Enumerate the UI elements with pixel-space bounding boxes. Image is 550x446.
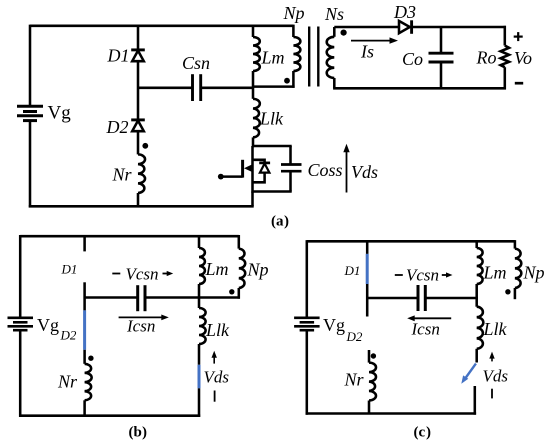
wire: (a) D1-D2 segment [137, 61, 140, 120]
wire: (c) Nr to bottom [368, 401, 371, 414]
svg-text:Vcsn: Vcsn [406, 266, 439, 285]
capacitor Co lead bottom [440, 62, 443, 88]
polarity dot Nr [142, 143, 148, 149]
winding Np (c) [515, 249, 521, 288]
svg-text:Vg: Vg [37, 315, 59, 335]
wire: (a) Np branch top lead [292, 25, 295, 37]
svg-text:): ) [142, 425, 147, 441]
svg-text:Icsn: Icsn [411, 320, 440, 339]
svg-text:Lm: Lm [205, 259, 229, 279]
polarity dot Np (a) [284, 78, 290, 84]
svg-text:Vds: Vds [204, 368, 230, 387]
wire: (c) switch bottom stub [474, 386, 477, 415]
wire: (a) source rail to Coss [253, 190, 292, 193]
wire: (a) left rail upper [29, 25, 32, 107]
resistor Ro [501, 46, 509, 68]
capacitor Co lead top [440, 27, 443, 53]
wire: (a) left rail lower [29, 121, 32, 208]
wire: (b) D2 black top [83, 298, 86, 311]
arrow Vcsn (b) [163, 273, 169, 275]
label minus Vcsn (b) [112, 273, 120, 275]
diode D1 [131, 48, 145, 51]
wire: (c) Csn wire left [367, 297, 418, 300]
wire: (b) Csn wire left [85, 296, 138, 299]
svg-text:Coss: Coss [308, 160, 343, 180]
switch blade blue arrow (c) [465, 364, 476, 379]
wire: (b) Lm bottom lead [198, 284, 201, 298]
transistor Q1 gate bar [241, 160, 244, 178]
winding Ns [327, 37, 335, 78]
wire: gate lead [221, 175, 243, 178]
wire: (a) Nr to bottom [137, 193, 140, 206]
wire: (a) bottom rail [29, 205, 254, 208]
svg-text:Llk: Llk [483, 319, 508, 339]
label minus (a) [515, 82, 523, 85]
wire: (b) Nr to bottom [83, 400, 86, 415]
svg-text:Vds: Vds [351, 162, 378, 182]
svg-text:a: a [276, 214, 284, 230]
svg-text:Icsn: Icsn [126, 317, 155, 336]
capacitor Coss lead top [289, 146, 292, 165]
capacitor Csn (c) [417, 285, 420, 311]
wire: (b) left rail upper [19, 235, 22, 318]
svg-text:Nr: Nr [57, 372, 78, 392]
wire: (a) Lm bottom lead [252, 71, 255, 88]
wire: (a) right rail bottom [504, 67, 507, 89]
svg-text:Nr: Nr [112, 165, 133, 185]
diode D1 blue segment (c) [366, 254, 369, 284]
svg-text:Ro: Ro [476, 48, 497, 68]
wire: (c) Llk top lead [475, 298, 478, 307]
svg-text:): ) [426, 425, 431, 441]
current arrow Icsn (b) [119, 316, 162, 318]
body diode of Q1 [259, 162, 270, 165]
polarity dot Np (b) [229, 289, 234, 294]
svg-text:Lm: Lm [483, 263, 507, 283]
voltage arrow Vds (c) [491, 357, 493, 361]
battery Vg (c) [294, 316, 320, 319]
wire: (b) top rail [20, 235, 239, 238]
svg-text:): ) [284, 214, 289, 230]
transistor Q1 channel [251, 146, 254, 193]
wire: (c) Llk to switch [475, 349, 478, 363]
wire: (b) Llk to blue [198, 344, 201, 365]
svg-text:Np: Np [283, 3, 305, 23]
inductor Lm (a) [253, 37, 260, 71]
svg-text:D1: D1 [344, 263, 361, 278]
inductor Nr (a) [138, 154, 145, 193]
svg-text:D2: D2 [346, 329, 363, 344]
wire: (a) Csn left lead [138, 87, 193, 90]
svg-text:Nr: Nr [344, 370, 365, 390]
svg-text:Vcsn: Vcsn [126, 265, 159, 284]
svg-text:Is: Is [360, 42, 374, 62]
dash below Vds (b) [214, 391, 216, 402]
svg-text:Np: Np [523, 263, 545, 283]
svg-text:Lm: Lm [261, 48, 285, 68]
voltage arrow Vds (b) [213, 356, 215, 364]
polarity dot Nr (c) [371, 353, 376, 358]
wire: (b) D1 stub upper [83, 235, 86, 251]
wire: (c) D2 stub [366, 298, 369, 317]
svg-text:Vg: Vg [48, 103, 72, 124]
wire: (c) Nr top stub [368, 350, 371, 363]
wire: (c) bottom rail [306, 412, 477, 415]
label minus Vcsn (c) [395, 274, 403, 276]
winding Np (b) [239, 249, 245, 288]
transistor Q1 arrow [244, 164, 252, 172]
capacitor Co [429, 52, 454, 55]
winding Np (a) [293, 37, 300, 71]
wire: (b) Lm top lead [198, 236, 201, 248]
dash below Vds (c) [491, 389, 493, 399]
diode D2 blue segment (b) [83, 310, 86, 349]
switch voltage blue segment (b) [198, 365, 201, 389]
wire: (c) Lm bottom lead [475, 284, 478, 298]
inductor Nr (c) [369, 363, 376, 401]
wire: (c) Np top lead [514, 240, 517, 249]
wire: (c) top rail [307, 240, 515, 243]
svg-text:Ns: Ns [324, 4, 344, 24]
voltage arrow Vds (a) [346, 150, 348, 193]
wire: (a) Llk top lead [252, 87, 255, 99]
svg-text:Llk: Llk [259, 109, 284, 129]
body diode bottom lead [253, 173, 265, 183]
wire: (b) Llk top lead [198, 298, 201, 309]
wire: (b) Np bottom lead [238, 288, 241, 299]
wire: (a) Ns bottom lead [333, 78, 336, 88]
wire: (a) secondary top left [334, 26, 399, 29]
arrow Vcsn (c) [442, 274, 448, 276]
wire: (c) Np bottom lead [514, 288, 517, 299]
transformer core bars [308, 27, 310, 87]
battery Vg (b) [8, 316, 34, 319]
node: D1/D2/Csn junction [137, 87, 139, 89]
wire: (a) D2 to Nr [137, 131, 140, 154]
inductor Lm (c) [477, 248, 483, 284]
svg-text:c: c [419, 425, 426, 441]
wire: (b) Np top lead [238, 235, 241, 249]
wire: (a) Csn right lead [201, 87, 254, 90]
wire: (a) source to bottom [251, 192, 254, 207]
svg-text:Llk: Llk [205, 320, 230, 340]
wire: (a) Np bottom lead [292, 71, 295, 88]
capacitor Csn (b) [136, 285, 139, 311]
svg-text:Vo: Vo [514, 48, 532, 68]
gate terminal dot [218, 174, 224, 180]
inductor Llk (c) [477, 307, 484, 349]
svg-text:D1: D1 [61, 262, 78, 277]
wire: (c) Csn wire right [425, 297, 478, 300]
svg-text:Co: Co [402, 49, 423, 69]
svg-text:Np: Np [247, 260, 269, 280]
wire: (b) D2 to Nr coil [83, 350, 86, 364]
wire: (b) Csn wire right [145, 296, 240, 299]
inductor Lm (b) [199, 248, 205, 284]
inductor Nr (b) [85, 364, 92, 401]
wire: (c) left rail lower [306, 330, 309, 415]
svg-text:Vg: Vg [323, 315, 345, 335]
wire: (b) blue to bottom [198, 388, 201, 417]
capacitor Csn [191, 74, 194, 101]
svg-text:Vds: Vds [483, 367, 509, 386]
wire: (b) D1 lower segment [83, 282, 86, 297]
wire: (b) bottom rail [19, 414, 200, 417]
wire: (a) right rail top [504, 26, 507, 46]
wire: (a) drain rail to Coss [253, 145, 292, 148]
capacitor Coss [281, 163, 302, 166]
current arrow Icsn (c) [415, 317, 452, 319]
wire: (c) D1 black top [366, 240, 369, 254]
wire: (c) D1 black bottom [366, 284, 369, 298]
wire: (a) D1 branch top [137, 25, 140, 50]
battery Vg (a) [17, 105, 43, 108]
wire: (a) Ns top lead [333, 27, 336, 37]
polarity dot Np (c) [505, 289, 510, 294]
svg-text:D2: D2 [106, 117, 129, 137]
capacitor Coss lead bottom [289, 171, 292, 191]
svg-text:b: b [134, 425, 142, 441]
svg-text:D3: D3 [393, 2, 416, 22]
wire: (a) secondary bottom rail [333, 87, 506, 90]
inductor Llk (b) [199, 308, 206, 344]
wire: (c) Lm top lead [475, 241, 478, 248]
wire: (a) Llk to drain [252, 137, 255, 147]
label plus (a) [514, 35, 523, 37]
polarity dot Nr (b) [88, 356, 93, 361]
transistor Q1 drain step [253, 160, 265, 163]
svg-text:D1: D1 [107, 46, 130, 66]
inductor Llk (a) [253, 99, 260, 138]
current arrow Is [351, 40, 391, 42]
polarity dot Ns [341, 29, 347, 35]
diode D3 [399, 21, 410, 33]
diode D2 [131, 118, 145, 121]
svg-text:D2: D2 [60, 328, 77, 343]
wire: (a) Lm-Np bottom rail [253, 85, 295, 88]
wire: (a) secondary top right [412, 26, 506, 29]
wire: (b) left rail lower [19, 330, 22, 417]
wire: (c) left rail upper [306, 240, 309, 318]
wire: (a) Lm top lead [252, 25, 255, 37]
wire: (a) top rail [30, 25, 293, 28]
svg-text:Csn: Csn [182, 53, 210, 73]
